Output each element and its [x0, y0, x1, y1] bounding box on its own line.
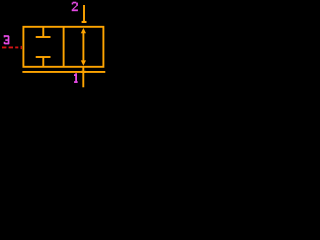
pin number 3	[4, 35, 10, 44]
pin 1 end cap	[81, 71, 86, 73]
electrode stem top (wire)	[42, 27, 44, 37]
pin number 2	[72, 2, 78, 12]
divider wire (center partition)	[63, 27, 65, 67]
electrode plate top	[36, 36, 51, 38]
motion arrow head up	[81, 28, 86, 33]
pin 1 wire	[82, 67, 84, 88]
pin number 1	[74, 73, 78, 83]
pin 2 wire	[83, 5, 85, 21]
background	[0, 0, 122, 90]
electrode plate bottom	[36, 56, 51, 58]
motion arrow head down	[81, 60, 86, 65]
motion arrow shaft	[82, 30, 84, 64]
pin 3 end cap	[21, 46, 22, 49]
electrode stem bottom (wire)	[42, 57, 44, 67]
base plate line under box	[22, 71, 105, 73]
pin 3 hidden wire (dashed)	[2, 46, 18, 48]
pin 2 end cap	[82, 21, 87, 23]
transducer body box B1	[23, 27, 103, 67]
